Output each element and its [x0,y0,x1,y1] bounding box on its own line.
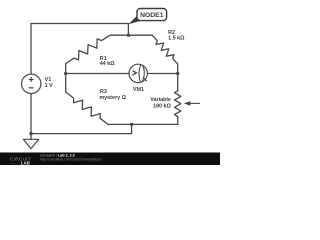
voltage source V1 [22,74,41,93]
wire mid-low rail [108,123,178,125]
resistor R1 [66,35,110,63]
wire left rail [65,64,67,93]
junction node dots [29,34,179,136]
wire VM1 right [147,73,177,75]
wire mid top rail [110,34,152,36]
svg-text:NODE1: NODE1 [140,12,164,19]
node dot NODE1 junction [127,34,130,37]
svg-text:R3: R3 [100,89,107,95]
svg-text:Variable: Variable [150,97,171,103]
pot wiper arrow [184,101,200,106]
voltmeter VM1 [129,64,147,82]
wire V1 top to NODE1 corner [31,24,128,75]
svg-text:LAB: LAB [21,161,30,166]
svg-text:180 kΩ: 180 kΩ [153,103,171,109]
footer bar [0,153,220,166]
svg-text:--—: --— [10,161,16,165]
svg-text:1 V: 1 V [45,83,53,89]
wire V1 bottom to ground [30,93,32,139]
wire right rail top [177,64,179,90]
wire pot bottom lead [177,118,179,125]
wire VM1 left [66,73,129,75]
svg-text:VM1: VM1 [133,87,144,93]
node dot ground junction [29,132,32,135]
resistor R2 [152,35,177,64]
svg-text:http://circuitlab.com/cme32b4a: http://circuitlab.com/cme32b4apk3kqx1 [40,158,102,162]
potentiometer R4 zigzag [175,90,181,118]
node dot bottom rail [130,123,133,126]
ground [23,139,38,148]
svg-text:44 kΩ: 44 kΩ [100,61,115,67]
svg-text:mystery Ω: mystery Ω [99,95,126,101]
node dot left rail [64,72,67,75]
labels [45,30,185,110]
svg-text:1.5 kΩ: 1.5 kΩ [168,35,185,41]
resistor R3 [66,92,108,124]
wire bottom drop and rail [31,124,132,133]
node dot right rail [176,72,179,75]
node flag NODE1 [128,9,166,25]
